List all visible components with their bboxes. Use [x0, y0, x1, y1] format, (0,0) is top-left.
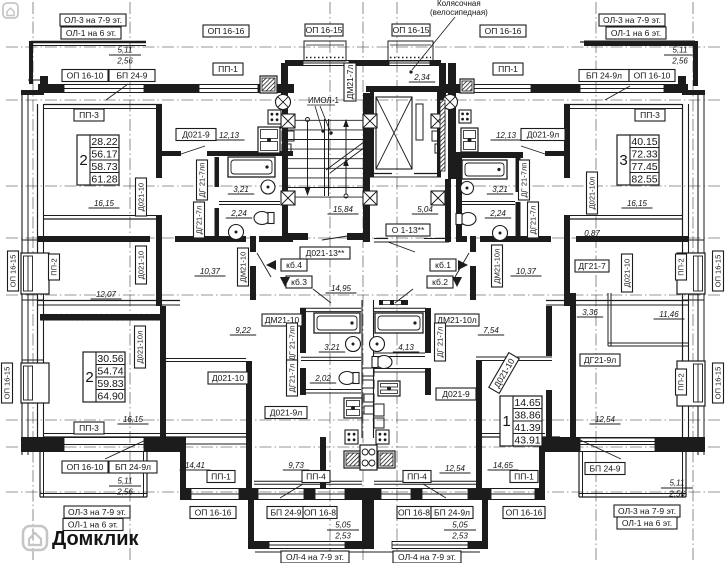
svg-text:10,37: 10,37 [200, 267, 221, 276]
svg-text:41.39: 41.39 [514, 422, 540, 434]
svg-text:4,13: 4,13 [398, 343, 414, 352]
svg-text:Д021-10: Д021-10 [212, 373, 244, 383]
svg-text:ОЛ-4 на 7-9 эт.: ОЛ-4 на 7-9 эт. [398, 552, 456, 562]
svg-text:ПП-4: ПП-4 [407, 472, 427, 482]
svg-text:кб.2: кб.2 [432, 277, 448, 287]
svg-text:2,53: 2,53 [451, 532, 468, 541]
svg-text:ОП 16-10: ОП 16-10 [67, 71, 104, 81]
svg-text:ОЛ-3 на 7-9 эт.: ОЛ-3 на 7-9 эт. [68, 507, 126, 517]
svg-text:кб.3: кб.3 [291, 277, 307, 287]
svg-text:28.22: 28.22 [91, 136, 117, 148]
svg-text:ОП 16-15: ОП 16-15 [714, 367, 723, 400]
svg-text:Д021-9л: Д021-9л [527, 130, 559, 140]
svg-text:ПП-2: ПП-2 [677, 258, 686, 275]
svg-text:ОЛ-4 на 7-9 эт.: ОЛ-4 на 7-9 эт. [286, 552, 344, 562]
svg-text:ДМ21-7л: ДМ21-7л [345, 65, 355, 100]
svg-text:2,24: 2,24 [489, 209, 506, 218]
svg-text:77.45: 77.45 [631, 161, 657, 173]
svg-text:16,15: 16,15 [94, 199, 115, 208]
svg-text:40.15: 40.15 [631, 136, 657, 148]
svg-text:ПП-1: ПП-1 [514, 472, 534, 482]
svg-text:14.65: 14.65 [514, 397, 540, 409]
svg-text:14,65: 14,65 [493, 461, 514, 470]
svg-text:3,21: 3,21 [324, 343, 340, 352]
svg-text:2,56: 2,56 [668, 490, 685, 499]
svg-text:2,56: 2,56 [116, 57, 133, 66]
svg-text:ДГ21-7л: ДГ21-7л [288, 364, 297, 393]
svg-text:14,41: 14,41 [185, 461, 205, 470]
svg-text:5,05: 5,05 [452, 521, 468, 530]
svg-text:2,56: 2,56 [671, 57, 688, 66]
svg-text:0,87: 0,87 [584, 229, 600, 238]
svg-text:(велосипедная): (велосипедная) [430, 8, 488, 17]
svg-text:2,34: 2,34 [413, 73, 430, 82]
svg-text:72.33: 72.33 [631, 148, 657, 160]
svg-text:Колясочная: Колясочная [437, 0, 481, 8]
svg-text:9,73: 9,73 [288, 461, 304, 470]
svg-text:82.55: 82.55 [631, 173, 657, 185]
svg-text:1: 1 [502, 413, 510, 430]
svg-text:12,54: 12,54 [595, 415, 616, 424]
svg-text:58.73: 58.73 [91, 161, 117, 173]
svg-text:2,24: 2,24 [230, 209, 247, 218]
svg-text:Д021-10: Д021-10 [137, 183, 146, 211]
svg-text:ОЛ-1 на 6 эт.: ОЛ-1 на 6 эт. [622, 518, 672, 528]
svg-text:ОП 16-16: ОП 16-16 [208, 26, 245, 36]
svg-text:ОП 16-15: ОП 16-15 [714, 255, 723, 288]
svg-text:56.17: 56.17 [91, 148, 117, 160]
svg-text:3: 3 [619, 152, 627, 169]
svg-text:5,11: 5,11 [118, 477, 133, 486]
svg-text:ОП 16-16: ОП 16-16 [195, 508, 232, 518]
svg-text:12,54: 12,54 [445, 464, 466, 473]
svg-text:ОП 16-15: ОП 16-15 [9, 255, 18, 288]
svg-text:5,11: 5,11 [670, 479, 685, 488]
svg-text:16,15: 16,15 [123, 415, 144, 424]
svg-text:16,15: 16,15 [627, 199, 648, 208]
svg-text:38.86: 38.86 [514, 409, 540, 421]
svg-text:ДМ21-10: ДМ21-10 [239, 252, 248, 283]
svg-text:Д021-10л: Д021-10л [588, 177, 597, 210]
svg-text:ПП-4: ПП-4 [306, 472, 326, 482]
svg-text:Домклик: Домклик [52, 528, 139, 550]
svg-text:12,07: 12,07 [96, 290, 117, 299]
svg-text:ДГ 21-7лп: ДГ 21-7лп [520, 163, 529, 198]
svg-text:ОЛ-1 на 6 эт.: ОЛ-1 на 6 эт. [66, 28, 116, 38]
svg-text:Д021-13**: Д021-13** [306, 248, 346, 258]
svg-text:ДГ 21-7лп: ДГ 21-7лп [198, 163, 207, 198]
svg-text:59.83: 59.83 [97, 378, 123, 390]
svg-text:ПП-3: ПП-3 [640, 110, 660, 120]
svg-text:ОП 16-8: ОП 16-8 [398, 508, 430, 518]
svg-text:ОЛ-1 на 6 эт.: ОЛ-1 на 6 эт. [611, 28, 661, 38]
svg-text:кб.4: кб.4 [286, 260, 302, 270]
svg-text:ОП 16-16: ОП 16-16 [485, 26, 522, 36]
svg-text:ОП 16-10: ОП 16-10 [634, 71, 671, 81]
svg-text:ОП 16-15: ОП 16-15 [393, 25, 430, 35]
svg-text:ОП 16-10: ОП 16-10 [67, 462, 104, 472]
svg-text:2,02: 2,02 [314, 374, 331, 383]
svg-text:ОЛ-3 на 7-9 эт.: ОЛ-3 на 7-9 эт. [618, 506, 676, 516]
svg-text:61.28: 61.28 [91, 173, 117, 185]
svg-text:2,56: 2,56 [116, 488, 133, 497]
svg-text:Д021-10л: Д021-10л [136, 331, 145, 364]
svg-text:ДГ 21-7л: ДГ 21-7л [436, 327, 445, 358]
svg-text:5,11: 5,11 [673, 46, 688, 55]
svg-text:ПП-3: ПП-3 [79, 423, 99, 433]
svg-text:5,11: 5,11 [118, 46, 133, 55]
svg-text:БП 24-9л: БП 24-9л [434, 508, 470, 518]
svg-text:Д021-9: Д021-9 [442, 389, 470, 399]
svg-text:ДМ21-10л: ДМ21-10л [493, 249, 502, 284]
svg-text:5,05: 5,05 [335, 521, 351, 530]
svg-text:ОП 16-16: ОП 16-16 [506, 508, 543, 518]
svg-text:2,53: 2,53 [334, 532, 351, 541]
svg-text:64.90: 64.90 [97, 390, 123, 402]
svg-text:3,21: 3,21 [492, 185, 508, 194]
svg-text:кб.1: кб.1 [435, 260, 451, 270]
svg-text:ДГ21-7л: ДГ21-7л [195, 206, 204, 235]
svg-text:10,37: 10,37 [516, 267, 537, 276]
svg-text:ПП-3: ПП-3 [79, 110, 99, 120]
svg-text:43.91: 43.91 [514, 434, 540, 446]
svg-text:ОЛ-3 на 7-9 эт.: ОЛ-3 на 7-9 эт. [64, 15, 122, 25]
svg-text:ПП-1: ПП-1 [211, 472, 231, 482]
svg-text:3,21: 3,21 [233, 185, 249, 194]
svg-text:БП 24-9л: БП 24-9л [115, 462, 151, 472]
svg-text:7,54: 7,54 [483, 326, 499, 335]
svg-text:2: 2 [85, 369, 93, 386]
svg-text:5,04: 5,04 [417, 205, 433, 214]
svg-text:30.56: 30.56 [97, 353, 123, 365]
svg-text:ДГ21-9л: ДГ21-9л [584, 355, 616, 365]
svg-text:О 1-13**: О 1-13** [392, 225, 425, 235]
svg-text:ДГ 21-7лп: ДГ 21-7лп [288, 326, 297, 361]
svg-text:ОП 16-8: ОП 16-8 [304, 508, 336, 518]
svg-text:БП 24-9: БП 24-9 [589, 464, 620, 474]
svg-text:Д021-10: Д021-10 [623, 259, 632, 287]
svg-text:14,95: 14,95 [331, 284, 352, 293]
svg-text:54.74: 54.74 [97, 365, 123, 377]
svg-text:Д021-10: Д021-10 [137, 251, 146, 279]
svg-text:Д021-9л: Д021-9л [270, 408, 302, 418]
svg-text:Д021-9: Д021-9 [182, 130, 210, 140]
svg-text:ПП-1: ПП-1 [218, 64, 238, 74]
svg-text:БП 24-9: БП 24-9 [116, 71, 147, 81]
svg-text:ИМОЛ-1: ИМОЛ-1 [308, 96, 339, 105]
svg-text:9,22: 9,22 [235, 326, 251, 335]
svg-text:ОЛ-3 на 7-9 эт.: ОЛ-3 на 7-9 эт. [603, 15, 661, 25]
svg-text:ПП-2: ПП-2 [50, 258, 59, 275]
svg-text:ОП 16-15: ОП 16-15 [3, 367, 12, 400]
svg-text:ПП-1: ПП-1 [498, 64, 518, 74]
svg-text:ОП 16-15: ОП 16-15 [306, 25, 343, 35]
svg-text:11,46: 11,46 [659, 310, 679, 319]
svg-text:БП 24-9л: БП 24-9л [586, 71, 622, 81]
svg-text:ПП-2: ПП-2 [677, 373, 686, 390]
svg-text:3,36: 3,36 [582, 308, 598, 317]
svg-text:ДГ21-7: ДГ21-7 [578, 261, 606, 271]
svg-text:15,84: 15,84 [333, 205, 354, 214]
svg-text:ДГ21-7л: ДГ21-7л [529, 206, 538, 235]
svg-text:12,13: 12,13 [219, 131, 240, 140]
svg-text:12,13: 12,13 [496, 131, 517, 140]
svg-text:БП 24-9: БП 24-9 [270, 508, 301, 518]
svg-text:2: 2 [79, 152, 87, 169]
